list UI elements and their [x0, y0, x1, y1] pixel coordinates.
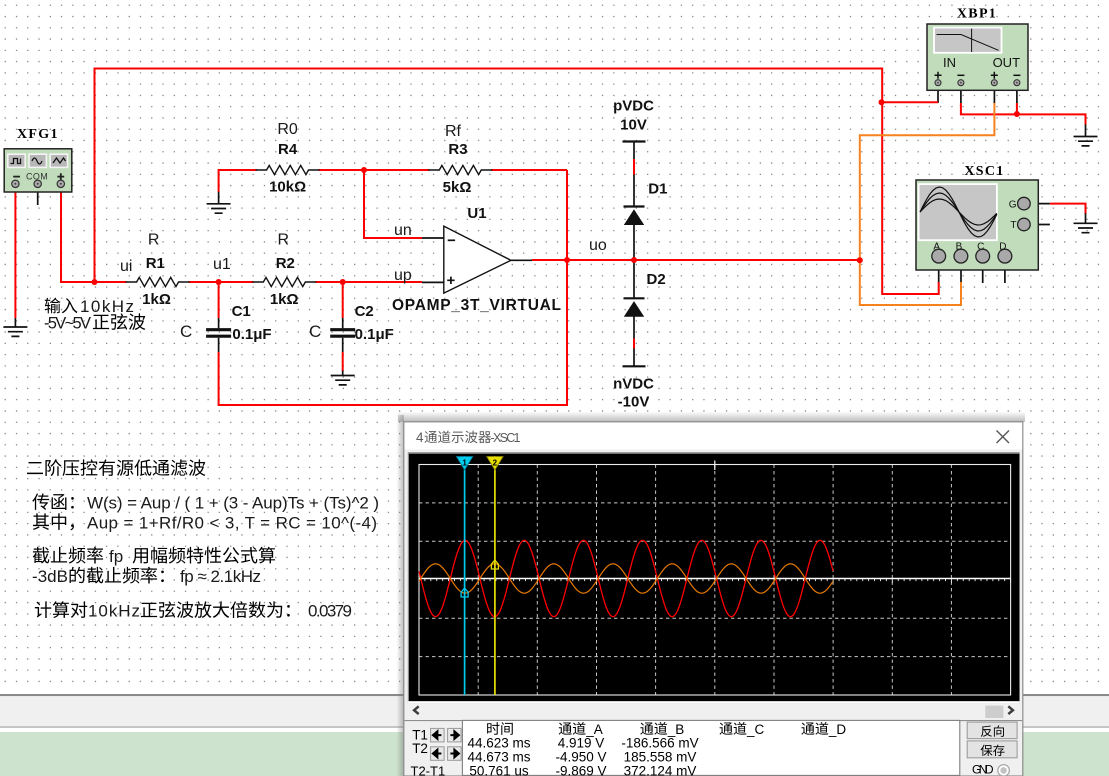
- svg-text:_A: _A: [585, 722, 603, 737]
- svg-text:T: T: [1010, 220, 1016, 231]
- svg-text:50.761 us: 50.761 us: [469, 763, 529, 776]
- svg-text:0.0379: 0.0379: [308, 602, 352, 621]
- svg-text:XBP1: XBP1: [957, 7, 997, 22]
- svg-text:-3dB: -3dB: [32, 567, 68, 586]
- svg-text:GND: GND: [972, 763, 994, 776]
- svg-text:C1: C1: [232, 303, 251, 320]
- svg-text:ui: ui: [120, 258, 132, 275]
- svg-text:fp: fp: [109, 547, 123, 566]
- svg-text:372.124 mV: 372.124 mV: [624, 763, 697, 776]
- svg-text:D1: D1: [648, 181, 667, 198]
- svg-text:10kHz: 10kHz: [80, 297, 134, 316]
- svg-text:XSC1: XSC1: [964, 164, 1004, 179]
- svg-text:u1: u1: [213, 256, 231, 273]
- svg-text:XFG1: XFG1: [17, 127, 59, 142]
- svg-text:-9.869 V: -9.869 V: [555, 763, 606, 776]
- svg-text:G: G: [1009, 199, 1017, 210]
- svg-text:Rf: Rf: [445, 123, 462, 140]
- svg-text:IN: IN: [943, 55, 956, 70]
- svg-text:D2: D2: [647, 271, 666, 288]
- svg-text:R0: R0: [277, 121, 298, 138]
- svg-text:R2: R2: [276, 255, 295, 272]
- svg-text:1: 1: [462, 459, 467, 468]
- svg-text:_B: _B: [667, 722, 685, 737]
- svg-text:C: C: [309, 322, 321, 341]
- svg-text:5kΩ: 5kΩ: [443, 179, 472, 196]
- svg-text:C: C: [180, 322, 192, 341]
- svg-text:Aup = 1+Rf/R0 < 3, T = RC = 1: Aup = 1+Rf/R0 < 3, T = RC = 10^(-4): [87, 514, 377, 533]
- svg-text:T2: T2: [412, 741, 428, 756]
- svg-text:nVDC: nVDC: [613, 376, 654, 393]
- svg-text:pVDC: pVDC: [613, 98, 654, 115]
- svg-text:10kHz: 10kHz: [88, 602, 140, 621]
- svg-text:4: 4: [416, 430, 424, 445]
- svg-text:R: R: [148, 232, 160, 249]
- svg-text:0.1μF: 0.1μF: [232, 326, 271, 343]
- svg-text:-10V: -10V: [618, 394, 650, 411]
- svg-text:W(s) = Aup / ( 1 + (3 - Aup)Ts: W(s) = Aup / ( 1 + (3 - Aup)Ts + (Ts)^2 …: [87, 494, 379, 513]
- svg-text:un: un: [394, 222, 412, 239]
- svg-text:R1: R1: [146, 255, 165, 272]
- svg-text:2: 2: [493, 459, 498, 468]
- svg-text:1kΩ: 1kΩ: [270, 291, 299, 308]
- svg-text:C2: C2: [355, 303, 374, 320]
- svg-text:-186.566 mV: -186.566 mV: [621, 736, 698, 751]
- svg-text:up: up: [394, 267, 412, 284]
- svg-text:_C: _C: [746, 722, 765, 737]
- svg-text:_D: _D: [828, 722, 847, 737]
- svg-text:10V: 10V: [620, 117, 647, 134]
- svg-text:-5V~5V: -5V~5V: [44, 315, 91, 333]
- svg-text:fp ≈ 2.1kHz: fp ≈ 2.1kHz: [180, 567, 261, 586]
- svg-text:R4: R4: [278, 141, 298, 158]
- svg-text:4.919 V: 4.919 V: [558, 736, 605, 751]
- svg-text:OUT: OUT: [993, 55, 1021, 70]
- svg-text:R: R: [278, 232, 290, 249]
- svg-text:OPAMP_3T_VIRTUAL: OPAMP_3T_VIRTUAL: [392, 297, 561, 314]
- svg-text:0.1μF: 0.1μF: [355, 326, 394, 343]
- svg-text:uo: uo: [589, 237, 607, 254]
- svg-text:T2-T1: T2-T1: [411, 763, 446, 776]
- svg-text:-XSC1: -XSC1: [491, 431, 521, 445]
- svg-text:44.623 ms: 44.623 ms: [467, 736, 530, 751]
- svg-text:U1: U1: [467, 205, 486, 222]
- svg-text:1kΩ: 1kΩ: [142, 291, 171, 308]
- svg-text:10kΩ: 10kΩ: [269, 179, 306, 196]
- svg-text:R3: R3: [448, 141, 467, 158]
